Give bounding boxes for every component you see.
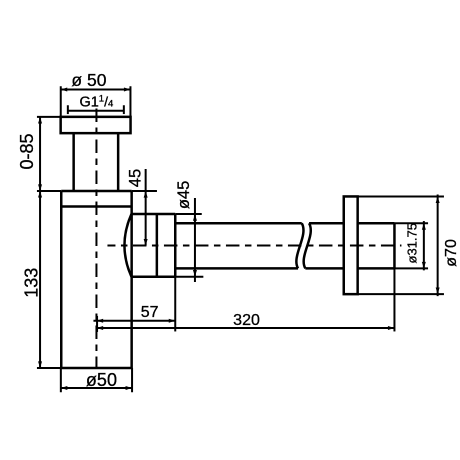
side nut top edge — [132, 213, 176, 216]
side nut bottom edge — [132, 276, 176, 279]
svg-text:ø50: ø50 — [86, 370, 117, 390]
dia50 top arrow left — [61, 87, 68, 91]
dia50 bottom arrow right — [126, 386, 133, 390]
trap vertical centerline — [95, 108, 97, 367]
dia31.75 arrow top — [422, 223, 426, 230]
pipe bottom edge mid segment — [305, 267, 343, 270]
320 dimension line — [97, 327, 395, 329]
320 pipe end extension — [393, 268, 395, 331]
dia50 bottom arrow left — [61, 386, 67, 390]
svg-text:133: 133 — [21, 268, 41, 298]
dia70 flange top extension — [358, 195, 444, 197]
pipe-body intersection arc — [124, 214, 131, 277]
320 arrow left — [97, 326, 104, 330]
57 arrow left — [97, 319, 104, 323]
bottom left extension — [37, 367, 61, 369]
dia70 dimension line — [437, 195, 439, 297]
trap body nut joint line — [61, 205, 131, 208]
side nut right edge — [174, 214, 177, 277]
dia31.75 pipe bottom extension — [394, 267, 428, 269]
57 arrow right — [169, 319, 176, 323]
dia70 arrow bottom — [436, 288, 440, 295]
trap body bottom edge — [61, 367, 131, 370]
pipe top edge mid segment — [309, 222, 344, 225]
trap centerline projection extension — [96, 316, 98, 332]
G1 1/4 tick left — [67, 105, 69, 114]
svg-text:ø70: ø70 — [443, 239, 460, 267]
dia70 arrow top — [436, 197, 440, 204]
dia31.75 dimension line — [423, 221, 425, 270]
trap body top edge — [61, 190, 131, 193]
57-320 nut face extension — [174, 277, 176, 332]
left dimension line 0-85 and 133 — [39, 117, 41, 368]
dia50 top arrow right — [124, 87, 131, 91]
0-85 arrow bottom — [38, 184, 42, 191]
dia45 arrow bottom — [193, 270, 197, 277]
pipe top edge left segment — [175, 222, 302, 225]
pipe bottom edge right segment — [358, 267, 395, 270]
G1 1/4 dimension line — [68, 110, 124, 112]
dia50 bottom extension left — [60, 368, 62, 392]
dia45 dimension line — [194, 198, 196, 282]
dia45 nut bottom extension — [175, 276, 203, 278]
svg-text:ø 50: ø 50 — [71, 70, 106, 90]
45 extension right of body top — [132, 190, 157, 192]
dia50 bottom dimension line — [61, 387, 132, 389]
dia50 bottom extension right — [131, 368, 133, 392]
inlet tube wall left — [72, 133, 75, 191]
pipe end edge — [393, 223, 396, 268]
45 arrow top — [144, 191, 148, 198]
dia45 arrow top — [193, 214, 197, 221]
45 dimension line — [145, 169, 147, 246]
pipe top edge right segment — [358, 222, 395, 225]
dia70 flange bottom extension — [358, 293, 444, 295]
133 arrow bottom — [38, 361, 42, 368]
svg-text:ø45: ø45 — [175, 181, 193, 209]
pipe break curve 1 — [296, 223, 303, 268]
57 dimension line — [93, 320, 175, 322]
45 arrow bottom — [144, 239, 148, 246]
dia50 top extension right — [129, 86, 131, 116]
svg-text:ø31.75: ø31.75 — [404, 223, 419, 263]
pipe break curve 2 — [304, 223, 311, 268]
svg-text:45: 45 — [126, 169, 144, 187]
trap body left edge — [60, 191, 63, 368]
trap body right edge — [130, 191, 133, 368]
dia50 top dimension line — [61, 88, 131, 90]
svg-text:320: 320 — [233, 312, 260, 329]
pipe horizontal centerline — [107, 244, 401, 246]
0-85 top extension — [37, 116, 61, 118]
dia31.75 pipe top extension — [394, 222, 428, 224]
inlet top flange — [61, 117, 131, 133]
0-85 arrow top — [38, 117, 42, 124]
inlet tube wall right — [117, 133, 120, 191]
133 arrow top — [38, 191, 42, 198]
dia45 nut top extension — [175, 213, 202, 215]
pipe bottom edge left segment — [175, 267, 298, 270]
G1 1/4 tick right — [123, 105, 125, 114]
side nut face line — [156, 214, 159, 277]
left mid extension — [37, 190, 61, 192]
dia50 top extension left — [60, 86, 62, 116]
dia31.75 arrow bottom — [422, 262, 426, 269]
wall flange — [344, 196, 358, 294]
svg-text:0-85: 0-85 — [17, 133, 37, 169]
svg-text:57: 57 — [141, 304, 159, 321]
320 arrow right — [388, 326, 395, 330]
